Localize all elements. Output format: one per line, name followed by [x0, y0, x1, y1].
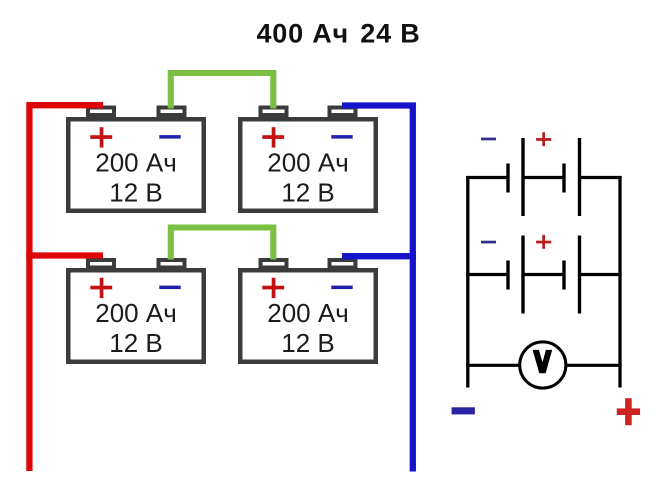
battery GB4 case	[240, 270, 376, 362]
wire cell 2 to right rail	[580, 176, 622, 179]
cell 2 negative plate (short bar)	[562, 164, 565, 193]
svg-text:200 Ач: 200 Ач	[267, 148, 349, 178]
cell 3 positive plate (long bar)	[521, 236, 524, 314]
red positive bus branch wire to GB3+	[26, 252, 103, 258]
green jumper wire GB1- to GB2+ (series link, top row)	[171, 73, 273, 109]
string 1 minus polarity mark	[481, 138, 496, 141]
cell 4 positive plate (long bar)	[578, 236, 581, 314]
red positive bus wire (left): horizontal to GB1+, vertical drop, branch to GB3+	[29, 105, 103, 471]
output negative terminal mark (bottom left of schematic)	[452, 407, 475, 414]
battery GB2 negative terminal	[330, 108, 356, 116]
cell 1 negative plate (short bar)	[506, 164, 509, 193]
schematic battery string 2 (bottom row)	[466, 235, 621, 314]
svg-text:12 В: 12 В	[109, 178, 163, 208]
battery GB3 positive terminal	[88, 260, 114, 268]
battery GB4 minus mark	[331, 286, 352, 290]
battery GB4 positive terminal	[261, 260, 287, 268]
battery GB1 positive terminal	[88, 108, 114, 116]
schematic battery string 1 (top row)	[466, 132, 621, 216]
svg-text:12 В: 12 В	[281, 328, 335, 358]
wire cell 3 to cell 4	[523, 273, 564, 276]
voltmeter V (circle)	[520, 342, 566, 388]
battery GB4 plus mark	[262, 278, 284, 298]
battery GB1 case	[68, 119, 204, 211]
battery GB2 case	[240, 119, 376, 211]
svg-text:12 В: 12 В	[109, 328, 163, 358]
string 2 minus polarity mark	[481, 241, 496, 244]
battery GB4 negative terminal	[330, 260, 356, 268]
green jumper wire GB3- to GB4+ (series link, bottom row)	[171, 228, 273, 260]
output positive terminal mark (bottom right of schematic)	[617, 398, 640, 425]
svg-text:200 Ач: 200 Ач	[267, 298, 349, 328]
voltmeter letter V	[533, 350, 553, 373]
battery GB3 minus mark	[159, 286, 180, 290]
string 2 plus polarity mark	[536, 235, 551, 249]
battery GB1 (top-left 200 Ач 12 В)	[68, 108, 204, 211]
wire left rail to cell 1	[466, 176, 508, 179]
svg-text:200 Ач: 200 Ач	[95, 148, 177, 178]
battery GB2 minus mark	[331, 135, 352, 139]
battery GB2 plus mark	[262, 127, 284, 147]
cell 3 negative plate (short bar)	[506, 261, 509, 290]
cell 1 positive plate (long bar)	[521, 138, 524, 216]
cell 2 positive plate (long bar)	[578, 138, 581, 216]
wire cell 1 to cell 2	[523, 176, 564, 179]
cell 4 negative plate (short bar)	[562, 261, 565, 290]
battery GB3 case	[68, 270, 204, 362]
battery GB1 minus mark	[159, 135, 180, 139]
blue negative bus wire (right): horizontal from GB2-, vertical drop	[342, 106, 413, 472]
wire left rail to voltmeter	[466, 364, 519, 367]
battery GB2 positive terminal	[261, 108, 287, 116]
schematic left rail wire (negative rail)	[466, 176, 469, 388]
schematic right rail wire (positive rail)	[618, 176, 621, 388]
battery GB3 negative terminal	[159, 260, 185, 268]
wire left rail to cell 3	[466, 273, 508, 276]
svg-text:200 Ач: 200 Ач	[95, 298, 177, 328]
battery GB4 (bottom-right 200 Ач 12 В)	[240, 260, 376, 362]
battery GB1 negative terminal	[159, 108, 185, 116]
battery GB1 plus mark	[90, 127, 112, 147]
battery GB3 plus mark	[90, 278, 112, 298]
svg-text:12 В: 12 В	[281, 178, 335, 208]
wire voltmeter to right rail	[566, 364, 621, 367]
battery GB3 (bottom-left 200 Ач 12 В)	[68, 260, 204, 362]
string 1 plus polarity mark	[536, 132, 551, 146]
svg-text:400 Ач 24 В: 400 Ач 24 В	[256, 19, 420, 49]
blue negative bus branch wire from GB4-	[342, 253, 416, 259]
wire cell 4 to right rail	[580, 273, 622, 276]
battery GB2 (top-right 200 Ач 12 В)	[240, 108, 376, 211]
